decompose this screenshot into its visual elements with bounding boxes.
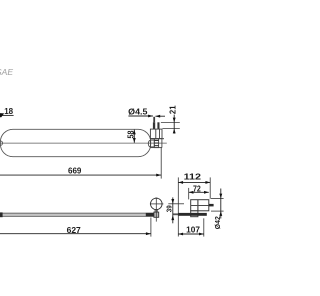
stem line 2	[156, 209, 158, 212]
ext 107 right	[203, 218, 205, 236]
bracket block	[191, 200, 209, 211]
leader under 18	[0, 114, 14, 116]
dim 21 line	[173, 115, 175, 134]
dim 627 line	[0, 233, 151, 235]
lower lobe	[191, 211, 198, 217]
left end cap circle	[0, 141, 3, 145]
center line	[0, 142, 167, 144]
dim D42 line	[220, 189, 222, 219]
svg-text:627: 627	[67, 226, 82, 235]
tick bottom	[155, 209, 158, 211]
stem line 1	[154, 209, 156, 212]
dim D42 ref top	[211, 197, 224, 199]
tick right	[161, 203, 163, 206]
bolt threaded section	[154, 139, 158, 148]
svg-text:72: 72	[193, 184, 201, 193]
bar left cap	[0, 212, 3, 217]
dim 39 ref top	[168, 203, 184, 205]
svg-text:21: 21	[169, 105, 178, 114]
bar cross section	[178, 213, 207, 216]
block mid line	[191, 205, 209, 207]
ext line 627	[150, 218, 152, 237]
bolt thread band 3	[154, 145, 158, 146]
svg-text:39: 39	[165, 205, 174, 212]
svg-text:58: 58	[126, 130, 135, 138]
ext 112 right	[209, 177, 211, 198]
dim line D4.5 left	[128, 115, 153, 117]
dim 39 connector	[173, 213, 179, 215]
ext 72 left	[188, 188, 190, 200]
dim 112 line	[178, 181, 210, 183]
bolt bottom edge	[151, 147, 163, 149]
flange circle	[151, 198, 163, 210]
post bottom edge	[150, 138, 164, 140]
leader arrow 18	[0, 113, 4, 117]
post block	[150, 129, 162, 139]
dim 21 ref bottom	[163, 128, 180, 130]
tick top	[155, 197, 158, 199]
svg-text:112: 112	[184, 173, 202, 182]
screw tip	[153, 117, 155, 123]
dim line D4.5 right	[155, 115, 165, 117]
foot bracket	[154, 212, 159, 217]
dim 669 line	[0, 174, 161, 176]
bolt thread band 2	[154, 143, 158, 144]
dim 72 line	[189, 191, 209, 193]
bolt body	[151, 140, 155, 147]
pin left	[153, 122, 155, 129]
flange vertical axis	[155, 198, 157, 222]
dim 58 line	[133, 130, 135, 143]
svg-text:Ø4.5: Ø4.5	[128, 107, 148, 116]
flange horizontal axis	[150, 203, 164, 205]
svg-text:Ø42: Ø42	[213, 216, 222, 229]
post inner line 1	[155, 129, 157, 139]
svg-text:107: 107	[186, 226, 200, 235]
dim 107 line	[178, 233, 204, 235]
pin right	[157, 122, 159, 129]
bolt right line	[161, 139, 163, 148]
block divider	[197, 200, 199, 211]
tick left	[150, 203, 152, 206]
bar	[0, 213, 154, 216]
bolt cap	[148, 140, 150, 147]
dim 21 ref top	[161, 121, 180, 123]
rail body (stadium outline)	[0, 129, 150, 156]
post inner line 2	[159, 129, 161, 139]
wall pin	[209, 204, 214, 207]
bar right dark segment	[146, 213, 154, 217]
ext 112 left / 107 left	[177, 177, 179, 236]
svg-text:18: 18	[4, 107, 13, 116]
ext line 669	[160, 148, 162, 179]
svg-text:669: 669	[68, 166, 82, 175]
svg-text:SAE: SAE	[0, 67, 13, 77]
dim D42 ref bottom	[211, 210, 224, 212]
dim 39 line	[172, 197, 174, 223]
bolt thread band 1	[154, 140, 158, 141]
